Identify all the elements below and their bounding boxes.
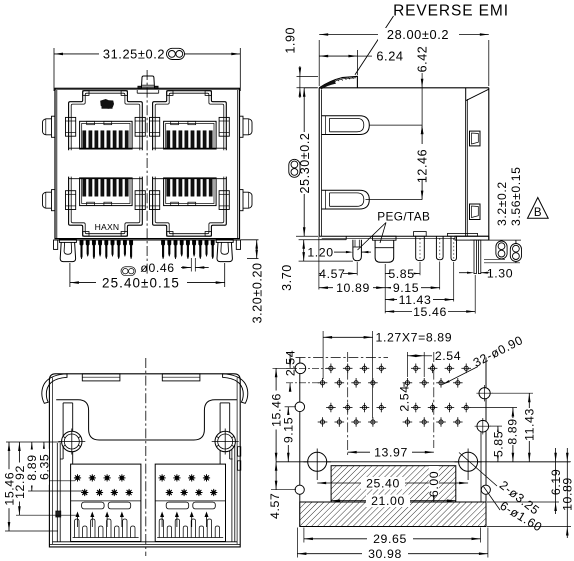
small hole top-left corner	[295, 363, 306, 374]
svg-text:12.46: 12.46	[416, 149, 430, 183]
dim 1.90	[284, 27, 318, 98]
svg-text:REVERSE EMI: REVERSE EMI	[393, 3, 509, 20]
leader line to EMI finger	[355, 16, 394, 75]
dim 30.98	[297, 528, 488, 561]
svg-text:13.97: 13.97	[374, 446, 408, 460]
svg-text:HAXN: HAXN	[95, 222, 120, 232]
rear EMI plate	[466, 88, 489, 236]
dim 12.46	[366, 125, 430, 200]
contact block right	[155, 464, 225, 541]
svg-text:4.57: 4.57	[268, 493, 282, 519]
dim 11.43	[385, 262, 454, 307]
dim 8.89 right footprint	[471, 408, 519, 462]
side body outline	[319, 88, 489, 240]
dim 31.25±0.2 top	[54, 47, 240, 92]
svg-text:8.89: 8.89	[505, 418, 519, 444]
svg-text:31.25±0.2: 31.25±0.2	[103, 47, 165, 62]
svg-text:28.00±0.2: 28.00±0.2	[387, 27, 449, 42]
row centerline A	[286, 367, 330, 369]
dim 3.20±0.20 right	[241, 240, 265, 324]
svg-text:25.40: 25.40	[366, 476, 400, 490]
dim 8.89 bottom view	[25, 442, 82, 491]
svg-text:10.89: 10.89	[561, 477, 574, 511]
big hole right 3.25	[455, 449, 482, 481]
dim 2.54 top-left vertical	[284, 350, 298, 392]
svg-text:2.54: 2.54	[435, 349, 461, 363]
dim 3.2±0.2	[470, 181, 521, 259]
label 32-Ø0.90	[443, 333, 525, 384]
svg-text:6.35: 6.35	[37, 454, 51, 480]
dim 9.15 footprint	[282, 407, 296, 462]
bottom flange left	[319, 236, 346, 240]
side view of connector	[280, 3, 548, 319]
dim 2.54 top-right horizontal	[407, 349, 461, 377]
inner arch contour	[56, 400, 237, 440]
side channel right	[232, 443, 235, 542]
dim Ø0.46	[140, 258, 208, 275]
svg-text:2.54: 2.54	[398, 385, 412, 411]
EMI finger curl top-left	[319, 76, 357, 89]
dim 28.00±0.2	[319, 27, 489, 86]
dim 6.24	[319, 49, 403, 75]
label 2-Ø3.25	[459, 453, 542, 518]
right base flange	[455, 236, 489, 240]
dim 11.43 right footprint	[492, 393, 537, 462]
EMI ear lower-right	[240, 190, 253, 211]
dim 4.57 footprint	[268, 462, 296, 519]
small hole right upper with cross	[476, 385, 492, 401]
dim 13.97	[348, 446, 434, 460]
big hole left 3.25	[304, 449, 332, 481]
svg-text:25.40±0.15: 25.40±0.15	[102, 276, 180, 291]
svg-text:6.24: 6.24	[376, 49, 403, 64]
port centerline 1	[347, 352, 349, 455]
svg-text:3.70: 3.70	[280, 264, 294, 291]
small hole left lower	[295, 485, 304, 494]
svg-text:30.98: 30.98	[368, 547, 402, 561]
small hole left upper	[295, 402, 305, 412]
svg-text:5.85: 5.85	[491, 431, 505, 457]
dim 3.56±0.15	[484, 166, 523, 262]
dim 6.42	[416, 46, 430, 134]
dim 29.65	[304, 528, 481, 547]
svg-text:3.56±0.15: 3.56±0.15	[509, 166, 523, 226]
dim 9.15	[385, 262, 440, 296]
dim 6.19	[487, 448, 563, 514]
EMI horn top-left	[42, 374, 67, 404]
svg-text:9.15: 9.15	[282, 417, 296, 443]
dim 10.89	[319, 281, 385, 295]
front view: stacked 2x2 RJ45 connector	[43, 47, 265, 324]
svg-text:B: B	[534, 207, 542, 219]
svg-text:4.57: 4.57	[319, 267, 345, 281]
front shield stub pins	[54, 240, 241, 249]
latch slot lower	[322, 190, 370, 209]
top center tab	[138, 76, 158, 89]
latch slot upper	[322, 116, 370, 135]
center recess below top edge	[137, 90, 159, 94]
front body shield outline	[55, 88, 240, 240]
RJ45 port lower-left with HAXN marking	[66, 177, 146, 237]
svg-text:ø0.46: ø0.46	[140, 261, 174, 275]
svg-text:PEG/TAB: PEG/TAB	[377, 210, 430, 224]
peg housing right	[220, 403, 233, 464]
hatched band lower	[300, 502, 486, 527]
PEG/TAB label	[358, 210, 431, 251]
hatched block upper	[331, 466, 456, 502]
bottom view of connector	[2, 358, 247, 556]
port centerline 2	[433, 352, 435, 448]
svg-text:3.20±0.20: 3.20±0.20	[251, 262, 265, 323]
32 pin holes grid	[318, 364, 471, 427]
peg circle left	[58, 429, 85, 455]
rear plate latch window lower	[470, 204, 481, 220]
pins	[80, 240, 215, 259]
small hole right lower	[481, 485, 490, 494]
dim 10.89 right	[487, 448, 574, 538]
contact block left	[71, 464, 141, 541]
svg-text:2.54: 2.54	[284, 350, 298, 376]
dim 6.35 bottom view	[37, 442, 75, 485]
RJ45 port lower-right	[150, 177, 230, 237]
svg-text:11.43: 11.43	[523, 408, 537, 441]
right solder legs	[474, 240, 481, 274]
PCB footprint layout	[268, 331, 574, 561]
dim 1.30	[459, 267, 513, 281]
svg-text:1.27X7=8.89: 1.27X7=8.89	[376, 331, 453, 345]
centerline front view	[146, 70, 148, 282]
svg-text:15.46: 15.46	[413, 305, 447, 319]
pins	[414, 232, 478, 261]
svg-text:10.89: 10.89	[336, 281, 370, 295]
row centerline B	[286, 382, 322, 384]
RJ45 port upper-right	[150, 91, 230, 151]
EMI ear upper-right	[240, 116, 253, 137]
peg housing left	[60, 403, 72, 464]
dim 4.57	[319, 236, 357, 289]
svg-text:6.42: 6.42	[416, 46, 430, 73]
svg-text:1.20: 1.20	[307, 246, 333, 260]
svg-text:29.65: 29.65	[373, 532, 407, 546]
top notch tab left	[82, 374, 120, 381]
svg-text:6.00: 6.00	[427, 471, 441, 497]
centerline bottom view	[145, 358, 147, 556]
dim 15.46	[385, 275, 475, 319]
dim 1.27X7=8.89	[323, 331, 452, 419]
EMI ear lower-left	[43, 190, 56, 211]
dim 6.00	[427, 466, 441, 502]
dim 1.20	[307, 246, 371, 260]
small hole right middle with cross	[475, 418, 491, 434]
front mounting leg right	[216, 239, 233, 261]
EMI ear upper-left	[43, 116, 56, 137]
svg-text:5.85: 5.85	[388, 267, 414, 281]
svg-text:21.00: 21.00	[371, 494, 405, 508]
dim 25.30±0.2	[289, 88, 318, 236]
dim 21.00 footprint	[331, 494, 456, 508]
svg-text:3.2±0.2: 3.2±0.2	[495, 181, 509, 226]
board outline	[296, 358, 487, 527]
dim 2.54 mid vertical	[398, 383, 412, 412]
side slot marks	[56, 447, 241, 517]
datum triangle B	[528, 198, 549, 220]
side channel left	[57, 443, 60, 542]
svg-text:1.30: 1.30	[487, 267, 513, 281]
top notch tab right	[162, 374, 200, 381]
dim 15.46 bottom view	[2, 442, 62, 531]
peg circle right	[212, 429, 239, 455]
dim 25.40 footprint	[317, 476, 468, 490]
tab post	[373, 236, 397, 262]
rear plate latch window upper	[470, 131, 481, 146]
dim 3.70	[280, 240, 353, 291]
peg (round post)	[353, 240, 362, 261]
bottom view body outline	[49, 374, 240, 547]
dim 12.92 bottom view	[13, 442, 78, 515]
svg-text:1.90: 1.90	[284, 27, 298, 54]
dim 5.85	[385, 262, 420, 313]
EMI horn top-right	[223, 374, 248, 404]
reference centerline of big holes	[276, 461, 570, 463]
dim 15.46 footprint	[270, 368, 297, 462]
label 6-Ø1.60	[484, 487, 545, 535]
RJ45 port upper-left with UL logo	[66, 91, 146, 151]
dim 25.40±0.15	[70, 263, 225, 291]
dim 5.85 right footprint	[490, 426, 506, 462]
